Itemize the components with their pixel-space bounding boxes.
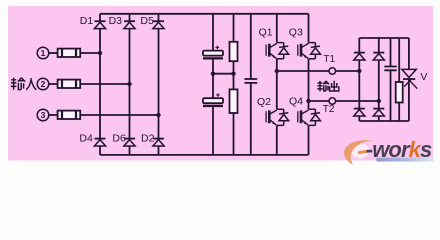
svg-text:3: 3 <box>41 110 46 120</box>
input terminal circle 2 <box>37 78 49 90</box>
svg-text:Q1: Q1 <box>259 26 273 38</box>
svg-text:Q2: Q2 <box>257 96 271 108</box>
diode D8 <box>373 53 384 60</box>
node phase1-bus1 junction <box>98 51 102 55</box>
svg-text:D2: D2 <box>141 132 155 144</box>
svg-text:2: 2 <box>41 79 46 89</box>
wire phase2 left <box>48 83 57 85</box>
wire right leg2 <box>378 38 380 121</box>
wire resistor leg upper <box>233 14 235 42</box>
diode D10 <box>373 109 384 116</box>
capacitor C2 electrolytic <box>203 93 223 107</box>
svg-text:D4: D4 <box>79 132 93 144</box>
diode D1 <box>94 21 105 28</box>
transistor Q2 IGBT <box>266 109 289 125</box>
diode D2 <box>153 139 164 146</box>
wire bus2 vertical <box>129 14 131 155</box>
terminal T1 <box>329 68 336 75</box>
svg-text:V: V <box>420 71 427 83</box>
schematic pink canvas background <box>8 6 433 161</box>
transistor Q3 IGBT <box>298 43 321 59</box>
svg-text:D6: D6 <box>112 132 126 144</box>
wire inverter leg B upper <box>308 14 310 43</box>
node midpoint left <box>211 72 215 76</box>
resistor R3 output <box>396 82 403 103</box>
node phase3-bus3 junction <box>156 113 160 117</box>
svg-text:Q3: Q3 <box>289 26 303 38</box>
transistor Q1 IGBT <box>266 43 289 59</box>
capacitor C3 film <box>244 79 257 83</box>
terminal T2 <box>329 98 336 105</box>
svg-text:D3: D3 <box>109 15 123 27</box>
node leg A output junction <box>275 69 279 73</box>
label 输入 (input) <box>11 78 36 90</box>
wire right bridge bottom bus <box>359 120 409 122</box>
wire phase3 right <box>80 114 158 116</box>
fuse F2 <box>58 80 81 88</box>
svg-text:Q4: Q4 <box>289 96 303 108</box>
wire T2 to right bridge <box>335 100 378 102</box>
wire DC midpoint link <box>213 73 234 75</box>
svg-text:D5: D5 <box>140 15 154 27</box>
fuse F3 <box>58 111 81 119</box>
diode D5 <box>153 21 164 28</box>
e-works logo underline bar <box>377 158 434 162</box>
wire capacitor leg middle <box>212 60 214 99</box>
fuse F1 <box>58 49 81 57</box>
diode D4 <box>94 139 105 146</box>
resistor R1 <box>230 42 238 61</box>
wire output resistor leg <box>398 38 400 121</box>
diode D6 <box>124 139 135 146</box>
wire phase3 left <box>48 114 57 116</box>
svg-text:T2: T2 <box>323 104 335 115</box>
wire DC+ top bus <box>100 13 309 15</box>
resistor R2 <box>230 89 238 113</box>
e-works logo swoosh <box>344 140 372 165</box>
svg-text:T1: T1 <box>323 54 335 65</box>
wire capacitor leg lower <box>212 107 214 155</box>
wire resistor leg middle <box>233 61 235 89</box>
wire T2 output <box>309 100 330 102</box>
capacitor C1 electrolytic <box>203 46 223 60</box>
transistor Q4 IGBT <box>298 109 321 125</box>
e-works logo inner disc <box>350 141 371 160</box>
wire phase1 left <box>48 52 57 54</box>
node midpoint right <box>231 72 235 76</box>
input terminal circle 3 <box>37 109 49 121</box>
wire resistor leg lower <box>233 113 235 155</box>
diode D9 <box>354 109 365 116</box>
wire T1 to right bridge <box>335 70 359 72</box>
node T2 right bridge junction <box>377 99 381 103</box>
wire inverter leg A middle <box>276 59 278 109</box>
node phase2-bus2 junction <box>127 82 131 86</box>
node leg B output junction <box>306 99 310 103</box>
svg-text:1: 1 <box>41 48 46 58</box>
wire film cap leg upper <box>250 14 252 79</box>
e-works logo e crossbar <box>358 150 369 154</box>
label 输出 (output) <box>317 81 339 92</box>
wire inverter leg A lower <box>276 125 278 154</box>
wire bus3 vertical <box>158 14 160 155</box>
wire inverter leg B middle <box>308 59 310 109</box>
diode D7 <box>354 53 365 60</box>
svg-text:D1: D1 <box>80 15 94 27</box>
wire output cap leg <box>390 38 392 121</box>
wire thyristor leg <box>408 38 410 121</box>
wire capacitor leg upper <box>212 14 214 51</box>
wire film cap leg lower <box>250 83 252 155</box>
wire right leg1 <box>358 38 360 121</box>
wire right bridge top bus <box>359 37 409 39</box>
capacitor C4 output <box>384 67 396 71</box>
thyristor V <box>402 69 417 88</box>
node T1 right bridge junction <box>357 69 361 73</box>
diode D3 <box>124 21 135 28</box>
wire phase2 right <box>80 83 129 85</box>
wire T1 output <box>277 70 329 72</box>
wire bus1 vertical <box>99 14 101 155</box>
wire DC- bottom bus <box>100 154 309 156</box>
wire inverter leg B lower <box>308 125 310 154</box>
input terminal circle 1 <box>37 47 49 59</box>
wire phase1 right <box>80 52 100 54</box>
wire inverter leg A upper <box>276 14 278 43</box>
